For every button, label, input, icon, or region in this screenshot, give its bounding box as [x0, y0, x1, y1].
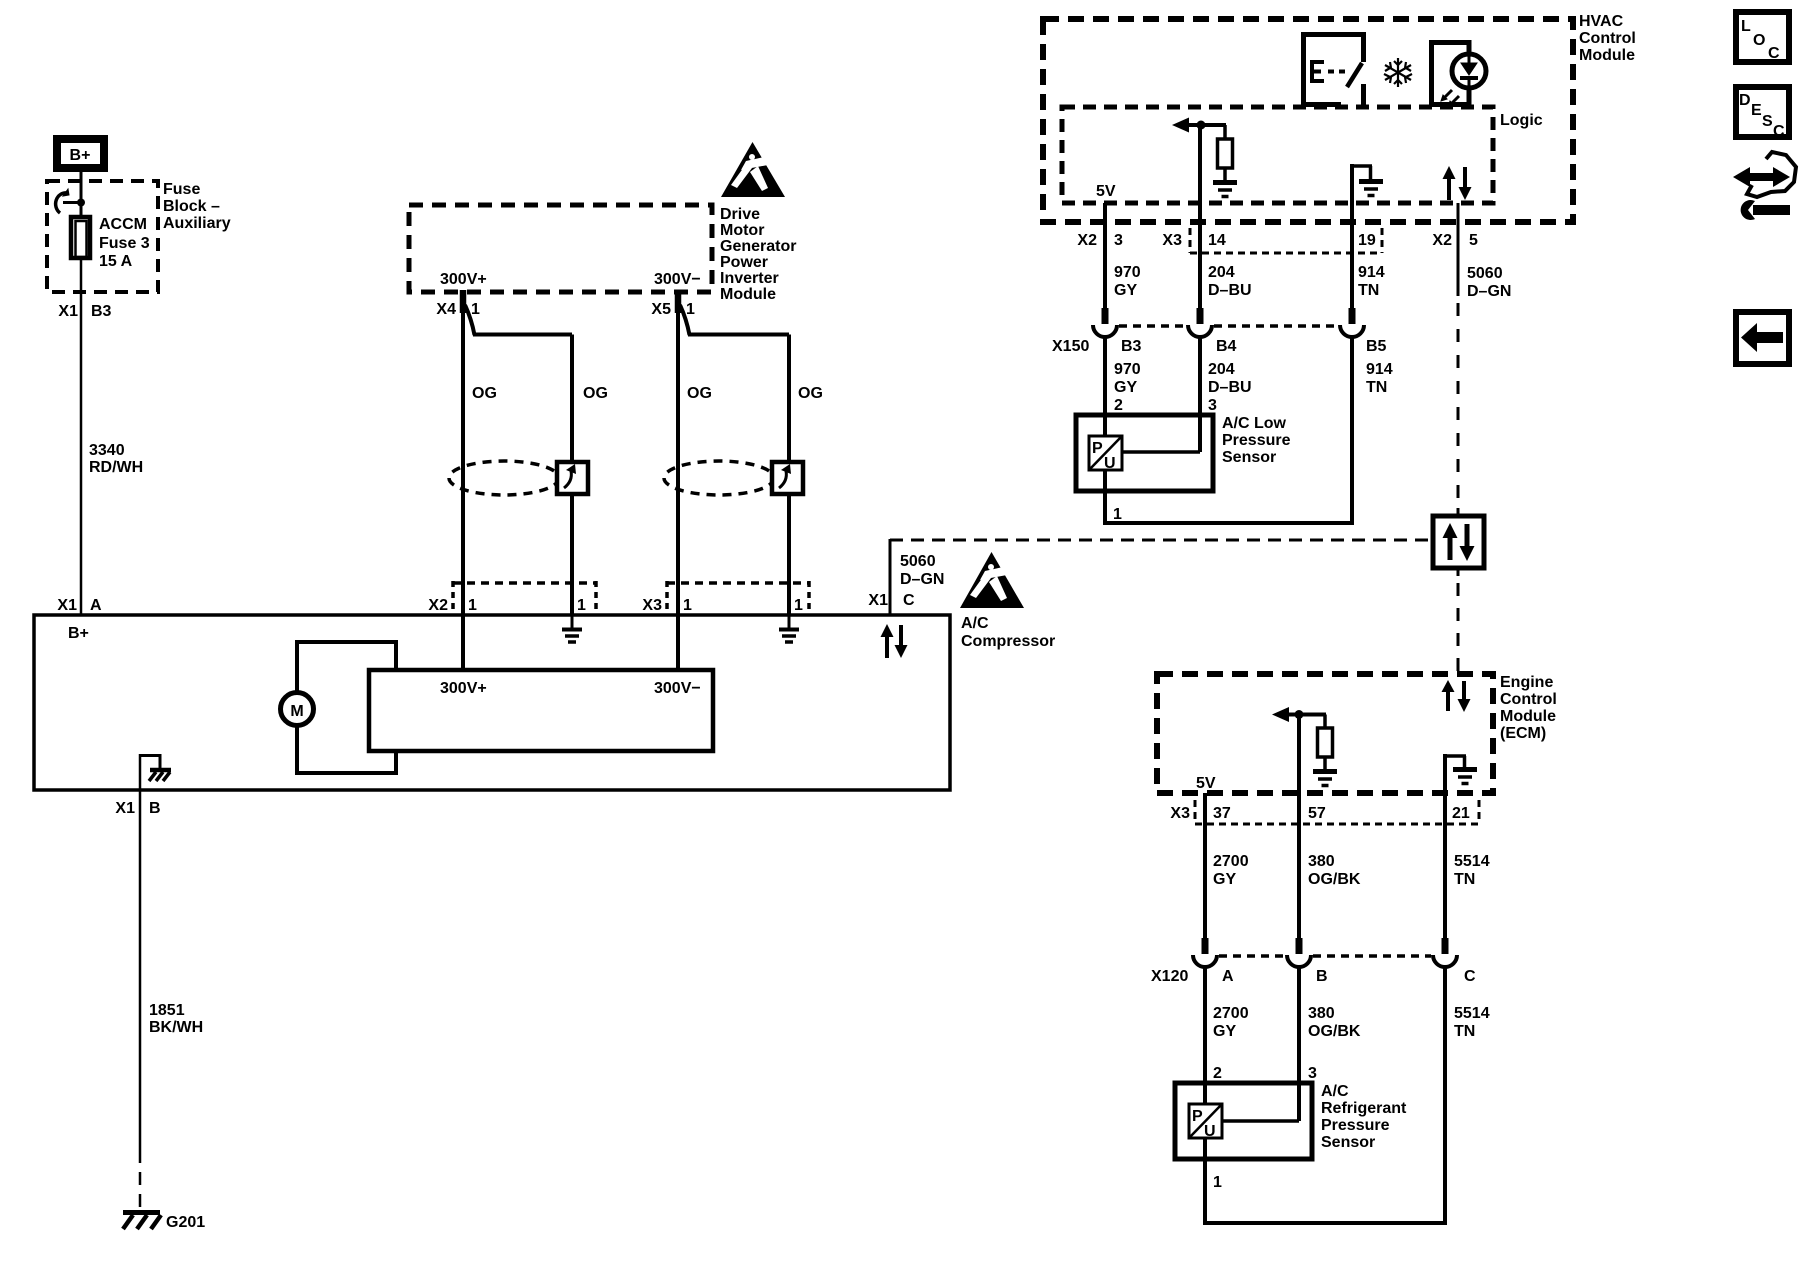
connector X4 pin 1 [436, 301, 480, 318]
svg-text:3: 3 [1308, 1065, 1317, 1082]
svg-text:P: P [1192, 1108, 1203, 1125]
X3 pin strip (ECM) [1195, 800, 1479, 824]
svg-text:B+: B+ [68, 625, 89, 642]
inline connector X120 C [1433, 938, 1457, 967]
wire serial data to ECM dashed vertical [1457, 568, 1460, 674]
label A/C Low Pressure Sensor [1222, 415, 1291, 466]
label 5060 D-GN (HVAC pin 5) [1467, 265, 1511, 300]
svg-text:1: 1 [471, 301, 480, 318]
label A/C Refrigerant Pressure Sensor [1321, 1083, 1407, 1151]
X3 pin strip (HVAC) [1190, 228, 1382, 253]
svg-text:3: 3 [1208, 397, 1217, 414]
svg-text:204: 204 [1208, 264, 1235, 281]
svg-text:3: 3 [1114, 232, 1123, 249]
svg-text:TN: TN [1358, 282, 1379, 299]
pressure transducer P/U symbol [1089, 436, 1122, 491]
connector X1 pin A [57, 597, 102, 614]
svg-text:RD/WH: RD/WH [89, 459, 143, 476]
svg-text:(ECM): (ECM) [1500, 725, 1546, 742]
svg-text:A/C Low: A/C Low [1222, 415, 1287, 432]
svg-text:15 A: 15 A [99, 253, 133, 270]
svg-text:Sensor: Sensor [1222, 449, 1276, 466]
svg-text:Sensor: Sensor [1321, 1134, 1375, 1151]
svg-text:OG: OG [583, 385, 608, 402]
HVAC control module dashed box [1043, 19, 1573, 222]
wire pin 37 upper [1203, 793, 1207, 940]
label 204 D-BU [1208, 264, 1252, 299]
label drive motor generator power inverter module [720, 206, 796, 303]
svg-text:2700: 2700 [1213, 853, 1249, 870]
serial data symbol inside compressor [881, 624, 908, 658]
serial data link box [1433, 516, 1484, 568]
svg-text:Drive: Drive [720, 206, 760, 223]
svg-text:5060: 5060 [900, 553, 936, 570]
wire 914 TN lower [1350, 337, 1354, 523]
svg-text:C: C [903, 592, 915, 609]
svg-text:X1: X1 [868, 592, 888, 609]
wire 3340 RD/WH [81, 258, 143, 615]
DESC button [1736, 87, 1789, 140]
svg-text:300V+: 300V+ [440, 271, 487, 288]
svg-text:5V: 5V [1096, 183, 1116, 200]
bus tap junction dot [77, 199, 85, 207]
ground G201 [123, 1213, 205, 1232]
svg-text:A/C: A/C [961, 615, 989, 632]
svg-text:GY: GY [1213, 871, 1236, 888]
svg-text:B: B [1316, 968, 1328, 985]
svg-text:380: 380 [1308, 1005, 1335, 1022]
ground below X2 pin 1 [562, 615, 582, 642]
wire 5060 D-GN dashed horizontal [890, 539, 1429, 542]
inline connector X150 B5 [1340, 308, 1364, 337]
svg-text:300V+: 300V+ [440, 680, 487, 697]
svg-text:B: B [149, 800, 161, 817]
LED indicator icon [1432, 43, 1487, 108]
svg-text:ACCM: ACCM [99, 216, 147, 233]
label 970 GY [1114, 264, 1141, 299]
svg-text:B3: B3 [1121, 338, 1142, 355]
connector X1 pin C [868, 592, 915, 609]
label 914 TN lower [1366, 361, 1393, 396]
fuse block auxiliary dashed box [47, 181, 158, 292]
svg-text:Auxiliary: Auxiliary [163, 215, 231, 232]
shield ellipse X4 pair [449, 461, 588, 495]
svg-text:X150: X150 [1052, 338, 1089, 355]
label 204 D-BU lower [1208, 361, 1252, 396]
A/C refrigerant pressure sensor box [1175, 1083, 1312, 1159]
serial data symbol (ECM) [1442, 680, 1471, 712]
inline connector X150 B4 [1188, 308, 1212, 337]
svg-text:Generator: Generator [720, 238, 796, 255]
svg-text:2: 2 [1114, 397, 1123, 414]
svg-text:5V: 5V [1196, 775, 1216, 792]
label 5514 TN [1454, 853, 1490, 888]
svg-text:X1: X1 [58, 303, 78, 320]
svg-text:2: 2 [1213, 1065, 1222, 1082]
wire 300V+ into inverter box [461, 615, 465, 670]
svg-text:970: 970 [1114, 264, 1141, 281]
wire pin 57 upper [1297, 714, 1301, 940]
A/C compressor box [34, 615, 950, 790]
svg-text:300V−: 300V− [654, 680, 701, 697]
pin labels 2 and 3 (low pressure sensor) [1114, 397, 1217, 414]
svg-text:Logic: Logic [1500, 112, 1543, 129]
motor M [281, 693, 314, 726]
wire refrigerant pin1 return [1203, 1159, 1447, 1225]
wire 300V- into inverter box [676, 615, 680, 670]
svg-text:970: 970 [1114, 361, 1141, 378]
label 380 OG/BK lower [1308, 1005, 1361, 1040]
inline connector X120 A [1193, 938, 1217, 967]
wire OG from X5 to X3-1 [678, 290, 789, 615]
svg-text:E: E [1751, 102, 1762, 119]
inline connector X120 B [1287, 938, 1311, 967]
svg-text:X2: X2 [1432, 232, 1452, 249]
resistor (HVAC) [1218, 125, 1233, 181]
wire pin 3 (970 GY upper) [1103, 203, 1107, 310]
svg-text:Module: Module [720, 286, 776, 303]
svg-text:TN: TN [1454, 1023, 1475, 1040]
LOC button [1736, 12, 1789, 62]
svg-text:A: A [90, 597, 102, 614]
bus tap hook [56, 189, 81, 213]
svg-text:C: C [1773, 123, 1785, 140]
svg-text:HVAC: HVAC [1579, 13, 1624, 30]
svg-text:Module: Module [1500, 708, 1556, 725]
wire 970 GY lower [1103, 337, 1107, 415]
svg-text:Engine: Engine [1500, 674, 1553, 691]
svg-text:D: D [1739, 92, 1751, 109]
labels X2 1 1 [428, 597, 586, 614]
wire 204 D-BU lower [1198, 337, 1202, 415]
svg-text:B3: B3 [91, 303, 112, 320]
wire 5060 dashed vertical above data box [1457, 203, 1460, 516]
svg-text:G201: G201 [166, 1214, 205, 1231]
svg-text:X3: X3 [1170, 805, 1190, 822]
svg-text:TN: TN [1454, 871, 1475, 888]
ECM pull-up arrow [1272, 707, 1326, 722]
svg-text:1851: 1851 [149, 1002, 185, 1019]
svg-text:19: 19 [1358, 232, 1376, 249]
label Fuse Block - Auxiliary [163, 181, 231, 232]
wire 2700 GY lower [1203, 967, 1207, 1083]
inline connector X150 B3 [1093, 308, 1117, 337]
wire pin 14 (204 D-BU upper) [1198, 125, 1202, 310]
svg-text:D–BU: D–BU [1208, 379, 1252, 396]
connector X5 pin 1 [651, 301, 695, 318]
svg-text:1: 1 [683, 597, 692, 614]
diagnostic icon arrows and wrench [1733, 152, 1796, 220]
ground below resistor (HVAC) [1213, 183, 1237, 197]
svg-text:3340: 3340 [89, 442, 125, 459]
svg-text:Motor: Motor [720, 222, 764, 239]
svg-text:Module: Module [1579, 47, 1635, 64]
svg-text:OG: OG [687, 385, 712, 402]
svg-text:Block –: Block – [163, 198, 220, 215]
pin labels 2 and 3 (refrigerant sensor) [1213, 1065, 1317, 1082]
svg-text:P: P [1092, 440, 1103, 457]
svg-text:1: 1 [794, 597, 803, 614]
drive motor generator power inverter module dashed box [409, 205, 712, 292]
svg-text:380: 380 [1308, 853, 1335, 870]
pin labels X3 37 57 21 [1170, 805, 1469, 822]
svg-text:B+: B+ [70, 147, 91, 164]
svg-text:GY: GY [1114, 379, 1137, 396]
labels X3 1 1 [642, 597, 803, 614]
svg-text:B5: B5 [1366, 338, 1387, 355]
wire sensor pin1 return [1103, 491, 1354, 523]
svg-text:D–BU: D–BU [1208, 282, 1252, 299]
labels X150 B3 B4 B5 [1052, 338, 1387, 355]
ground below X3 pin 1 [779, 615, 799, 642]
svg-text:C: C [1464, 968, 1476, 985]
connector X3 strip on compressor [667, 581, 809, 613]
wire 5514 TN lower [1443, 967, 1447, 1225]
inverter 300V box inside compressor [369, 670, 713, 751]
svg-text:Fuse: Fuse [163, 181, 200, 198]
label HVAC Control Module [1579, 13, 1636, 64]
serial data symbol (HVAC logic) [1443, 166, 1472, 200]
svg-text:L: L [1741, 18, 1751, 35]
snowflake icon [1384, 58, 1412, 87]
label 2700 GY lower [1213, 1005, 1249, 1040]
svg-text:Refrigerant: Refrigerant [1321, 1100, 1407, 1117]
wire B+ to fuse [80, 172, 83, 216]
svg-text:U: U [1104, 455, 1116, 472]
switch icon E [1304, 35, 1364, 105]
svg-text:Inverter: Inverter [720, 270, 779, 287]
wire pin 21 upper [1443, 793, 1447, 940]
svg-text:U: U [1204, 1123, 1216, 1140]
connector X1 pin B [115, 800, 160, 817]
svg-text:21: 21 [1452, 805, 1470, 822]
battery positive voltage B+ box [57, 139, 104, 168]
svg-text:Control: Control [1500, 691, 1557, 708]
svg-text:B4: B4 [1216, 338, 1237, 355]
shield ellipse X5 pair [664, 461, 803, 495]
resistor (ECM) [1318, 715, 1333, 771]
label 5060 D-GN [900, 553, 944, 588]
svg-text:OG/BK: OG/BK [1308, 1023, 1361, 1040]
fuse ACCM Fuse 3 15A [71, 216, 150, 270]
svg-text:OG: OG [472, 385, 497, 402]
svg-text:1: 1 [1113, 506, 1122, 523]
svg-text:C: C [1768, 45, 1780, 62]
wire 5060 D-GN stub at compressor [889, 539, 892, 615]
svg-text:X1: X1 [115, 800, 135, 817]
svg-text:Pressure: Pressure [1222, 432, 1291, 449]
connector X2 strip on compressor [453, 581, 596, 613]
svg-text:300V−: 300V− [654, 271, 701, 288]
ground pin 21 (ECM) [1443, 754, 1477, 793]
engine control module dashed box [1157, 674, 1493, 793]
svg-text:57: 57 [1308, 805, 1326, 822]
motor loop wire [297, 642, 396, 773]
svg-text:X2: X2 [428, 597, 448, 614]
svg-text:X2: X2 [1077, 232, 1097, 249]
svg-text:GY: GY [1114, 282, 1137, 299]
ground below resistor (ECM) [1313, 772, 1337, 786]
svg-text:TN: TN [1366, 379, 1387, 396]
svg-text:1: 1 [468, 597, 477, 614]
label 914 TN [1358, 264, 1385, 299]
svg-text:1: 1 [577, 597, 586, 614]
svg-text:1: 1 [1213, 1174, 1222, 1191]
svg-text:5514: 5514 [1454, 853, 1490, 870]
svg-text:S: S [1762, 113, 1773, 130]
pin labels X2 3 X3 14 19 X2 5 [1077, 232, 1478, 249]
svg-text:OG/BK: OG/BK [1308, 871, 1361, 888]
svg-text:5060: 5060 [1467, 265, 1503, 282]
svg-text:14: 14 [1208, 232, 1226, 249]
chassis ground inside compressor [139, 754, 171, 790]
logic pull-up arrow [1172, 118, 1226, 133]
svg-text:X3: X3 [1162, 232, 1182, 249]
svg-text:X5: X5 [651, 301, 671, 318]
svg-text:A/C: A/C [1321, 1083, 1349, 1100]
svg-text:D–GN: D–GN [900, 571, 944, 588]
svg-text:X120: X120 [1151, 968, 1188, 985]
svg-text:2700: 2700 [1213, 1005, 1249, 1022]
svg-text:37: 37 [1213, 805, 1231, 822]
svg-text:X3: X3 [642, 597, 662, 614]
X120 dashed line [1219, 954, 1431, 958]
svg-text:O: O [1753, 32, 1765, 49]
warning triangle high voltage (module) [721, 142, 785, 197]
wire OG from X4 to X2-1 [463, 290, 572, 615]
logic dashed box [1062, 107, 1493, 203]
svg-text:X4: X4 [436, 301, 456, 318]
svg-text:5: 5 [1469, 232, 1478, 249]
label 2700 GY [1213, 853, 1249, 888]
label 5514 TN lower [1454, 1005, 1490, 1040]
svg-text:A: A [1222, 968, 1234, 985]
svg-text:Pressure: Pressure [1321, 1117, 1390, 1134]
wire pin 19 (914 TN upper) [1350, 203, 1354, 310]
wire 1851 BK/WH [140, 790, 203, 1210]
svg-text:M: M [290, 703, 303, 720]
svg-text:Compressor: Compressor [961, 633, 1055, 650]
ground pin 19 (HVAC logic) [1350, 164, 1383, 203]
pressure transducer P/U symbol (refrigerant) [1189, 1104, 1222, 1159]
back arrow button [1736, 312, 1789, 364]
labels X120 A B C [1151, 968, 1476, 985]
svg-text:X1: X1 [57, 597, 77, 614]
svg-text:914: 914 [1366, 361, 1393, 378]
wire 380 OG/BK lower [1297, 967, 1301, 1083]
svg-text:BK/WH: BK/WH [149, 1019, 203, 1036]
svg-text:5514: 5514 [1454, 1005, 1490, 1022]
label 380 OG/BK [1308, 853, 1361, 888]
connector X1 pin B3 [58, 303, 111, 320]
svg-text:914: 914 [1358, 264, 1385, 281]
svg-text:Control: Control [1579, 30, 1636, 47]
svg-text:Fuse 3: Fuse 3 [99, 235, 150, 252]
svg-text:1: 1 [686, 301, 695, 318]
label Engine Control Module (ECM) [1500, 674, 1557, 742]
svg-text:D–GN: D–GN [1467, 283, 1511, 300]
svg-text:GY: GY [1213, 1023, 1236, 1040]
label 970 GY lower [1114, 361, 1141, 396]
A/C low pressure sensor box [1076, 415, 1213, 491]
warning triangle high voltage (compressor) [960, 552, 1024, 608]
svg-text:OG: OG [798, 385, 823, 402]
X150 dashed line [1119, 324, 1338, 328]
label A/C Compressor [961, 615, 1055, 650]
svg-text:204: 204 [1208, 361, 1235, 378]
svg-text:Power: Power [720, 254, 768, 271]
